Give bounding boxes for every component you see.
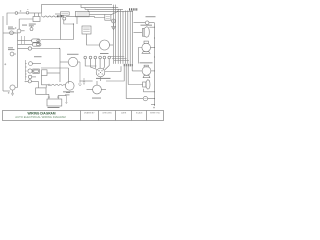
svg-text:AUTO ELECTRICAL WIRING DIAGRAM: AUTO ELECTRICAL WIRING DIAGRAM: [15, 115, 66, 119]
svg-text:SHEET NO: SHEET NO: [150, 112, 161, 114]
svg-text:CHECKED: CHECKED: [102, 112, 112, 114]
svg-text:WIRING DIAGRAM: WIRING DIAGRAM: [28, 112, 56, 116]
